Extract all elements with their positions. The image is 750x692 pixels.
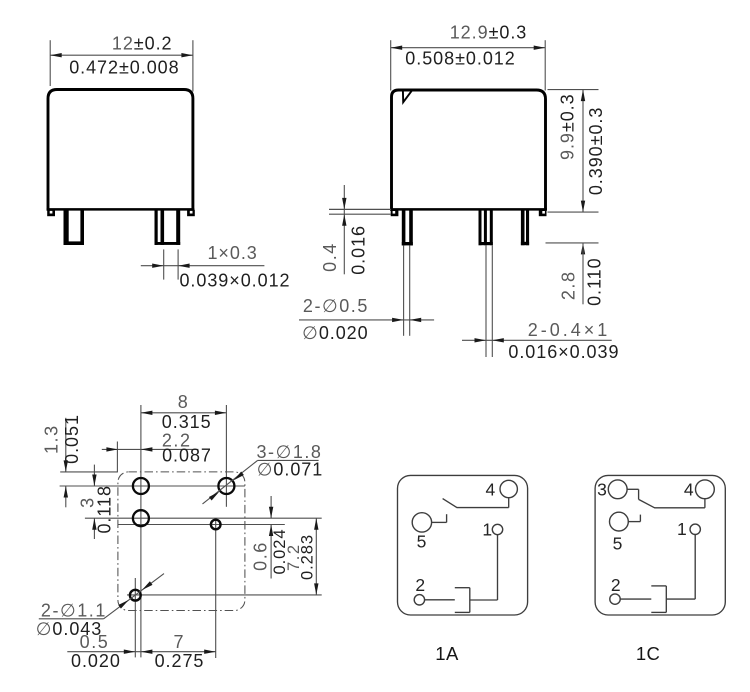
dimension 1×0.3 / 0.039×0.012 (front pin section) (141, 243, 291, 291)
1C pin 3 terminal (608, 480, 627, 499)
front view left pin (64, 211, 85, 246)
front view right pin (155, 211, 181, 245)
svg-text:1A: 1A (435, 643, 459, 664)
svg-text:0.508±0.012: 0.508±0.012 (405, 48, 515, 68)
side view middle pins (overlapping pair) (479, 211, 493, 246)
svg-text:0.016×0.039: 0.016×0.039 (508, 342, 619, 362)
svg-text:7: 7 (174, 632, 186, 652)
1C pin 5 terminal (610, 512, 629, 531)
svg-text:5: 5 (417, 531, 427, 551)
1C coil wire from pin 2 (620, 598, 651, 600)
1A pin 2 terminal (414, 595, 424, 605)
1A coil wire from pin 1 (470, 535, 498, 600)
svg-text:2: 2 (611, 575, 621, 595)
dimension 0.5 / 0.020 and 7 / 0.275 (bottom hole offsets) (67, 632, 216, 671)
hole bottom-left Ø1.1 (130, 590, 141, 601)
svg-text:8: 8 (178, 392, 190, 412)
1C movable contact arm (639, 499, 655, 507)
1C normally-closed contact lead from pin 3 (627, 489, 638, 499)
svg-text:0.4: 0.4 (320, 242, 340, 272)
dimension 0.4 / 0.016 (pin thickness) (320, 185, 368, 275)
svg-text:1.3: 1.3 (42, 424, 62, 454)
svg-text:0.016: 0.016 (348, 225, 368, 275)
side view right foot (539, 210, 547, 216)
hole middle-left Ø1.8 (133, 510, 149, 526)
svg-text:0.315: 0.315 (162, 412, 212, 432)
dimension 2-Ø0.5 / Ø0.020 (round pin diameter) (299, 296, 434, 343)
svg-text:12.9±0.3: 12.9±0.3 (450, 22, 528, 42)
svg-text:4: 4 (486, 480, 496, 500)
1A pin 4 terminal (500, 480, 517, 497)
svg-text:9.9±0.3: 9.9±0.3 (558, 93, 578, 160)
PCB footprint dashed outline (118, 472, 245, 611)
1A label 2 (415, 575, 425, 595)
1C pin 1 terminal (690, 524, 700, 534)
dimension 9.9±0.3 / 0.390±0.3 (body height) (548, 90, 607, 213)
svg-text:4: 4 (684, 480, 694, 500)
svg-text:0.6: 0.6 (250, 541, 270, 571)
label 2-Ø1.1 / Ø0.043 with leader (36, 574, 164, 639)
svg-text:0.118: 0.118 (95, 485, 115, 533)
front view left foot (47, 210, 55, 216)
1C label 4 (684, 480, 694, 500)
svg-text:1C: 1C (636, 643, 660, 664)
1C coil wire from pin 1 (666, 535, 695, 600)
dimension 8 / 0.315 (hole spacing) (141, 392, 227, 432)
1C pin 4 terminal (696, 480, 715, 499)
side view left pin seen edge-on (0.4 thick) (329, 209, 391, 214)
svg-text:∅0.020: ∅0.020 (302, 323, 368, 343)
svg-text:0.472±0.008: 0.472±0.008 (69, 57, 179, 77)
dimension 7.2 / 0.283 (hole row span) (285, 518, 319, 595)
dimension 2.2 / 0.087 (edge to hole) (102, 430, 212, 472)
1C label 1 (677, 519, 687, 539)
1C coil symbol (651, 586, 666, 613)
hole middle-right Ø1.1 (211, 520, 221, 530)
centerline row through top holes (60, 485, 245, 487)
dimension 12.9±0.3 / 0.508±0.012 (side width) (391, 22, 546, 90)
1A label 5 (417, 531, 427, 551)
svg-text:0.390±0.3: 0.390±0.3 (586, 107, 606, 196)
label 3-Ø1.8 / Ø0.071 with leader (203, 442, 324, 504)
svg-text:1: 1 (482, 520, 492, 540)
dimension 2.8 / 0.110 (pin length) (546, 243, 605, 306)
svg-text:∅0.071: ∅0.071 (257, 459, 323, 479)
relay front view body outline (47, 90, 195, 211)
svg-text:3: 3 (597, 480, 607, 500)
1C label 3 (597, 480, 607, 500)
centerline row through bottom hole (127, 594, 322, 596)
svg-text:0.051: 0.051 (62, 414, 82, 464)
1C contact wire to pin 4 (654, 499, 705, 508)
svg-text:2-0.4×1: 2-0.4×1 (528, 320, 611, 340)
svg-text:0.275: 0.275 (155, 651, 205, 671)
svg-text:2: 2 (415, 575, 425, 595)
svg-text:0.087: 0.087 (162, 446, 212, 466)
svg-text:5: 5 (613, 533, 623, 553)
svg-text:0.039×0.012: 0.039×0.012 (179, 270, 290, 290)
1A label 4 (486, 480, 496, 500)
schematic 1C box (595, 475, 725, 615)
1A coil symbol (455, 588, 470, 613)
svg-text:0.110: 0.110 (585, 257, 605, 305)
dimension 0.6 / 0.024 (hole row offset) (250, 496, 288, 579)
dimension 1.3 / 0.051 (edge to hole row) (42, 414, 118, 507)
side view left foot (391, 210, 399, 216)
centerline column through top-right hole (225, 405, 227, 507)
svg-text:2-∅0.5: 2-∅0.5 (303, 296, 369, 316)
1A label 1 (482, 520, 492, 540)
hole top-right Ø1.8 (218, 478, 234, 494)
side view pin 5 (521, 211, 529, 246)
label 1A (435, 643, 459, 664)
wire extension lines below pin 1 (404, 246, 410, 336)
relay side view body outline (390, 90, 547, 211)
svg-text:0.283: 0.283 (298, 534, 316, 580)
dimension 2-0.4×1 / 0.016×0.039 (flat pin section) (462, 320, 619, 362)
1A pin 1 terminal (492, 524, 502, 534)
centerline row through middle-right hole (118, 524, 285, 526)
centerline column through bottom hole (134, 578, 136, 657)
1A contact wire from pin 4 (457, 498, 509, 508)
dimension 12±0.2 / 0.472±0.008 (front width) (50, 33, 193, 91)
1A pin 5 terminal (412, 513, 431, 532)
hole top-left Ø1.8 (133, 478, 149, 494)
wire extension lines below middle pin (486, 245, 492, 357)
svg-text:12±0.2: 12±0.2 (112, 33, 173, 53)
front view right foot (187, 210, 195, 216)
1C label 2 (611, 575, 621, 595)
1A armature lead from pin 5 (432, 514, 447, 522)
svg-text:0.020: 0.020 (71, 651, 121, 671)
centerline row through middle-left hole (85, 517, 322, 519)
1A coil wire from pin 2 (425, 599, 455, 601)
svg-text:0.5: 0.5 (80, 632, 110, 652)
schematic 1A box (398, 475, 528, 615)
1A movable contact arm (443, 499, 457, 508)
svg-text:1×0.3: 1×0.3 (207, 243, 257, 263)
label 1C (636, 643, 660, 664)
svg-text:1: 1 (677, 519, 687, 539)
side view corner notch (polarity mark) (403, 91, 412, 103)
dimension 3 / 0.118 (hole row spacing) (77, 465, 114, 539)
svg-text:2-∅1.1: 2-∅1.1 (41, 600, 107, 620)
1C pin 2 terminal (610, 594, 620, 604)
side view pin 1 (402, 211, 413, 246)
svg-text:2.8: 2.8 (559, 270, 579, 300)
centerline column through left holes (140, 405, 142, 657)
1C label 5 (613, 533, 623, 553)
1C armature lead from pin 5 (628, 515, 640, 522)
centerline column through middle-right hole (215, 519, 217, 658)
